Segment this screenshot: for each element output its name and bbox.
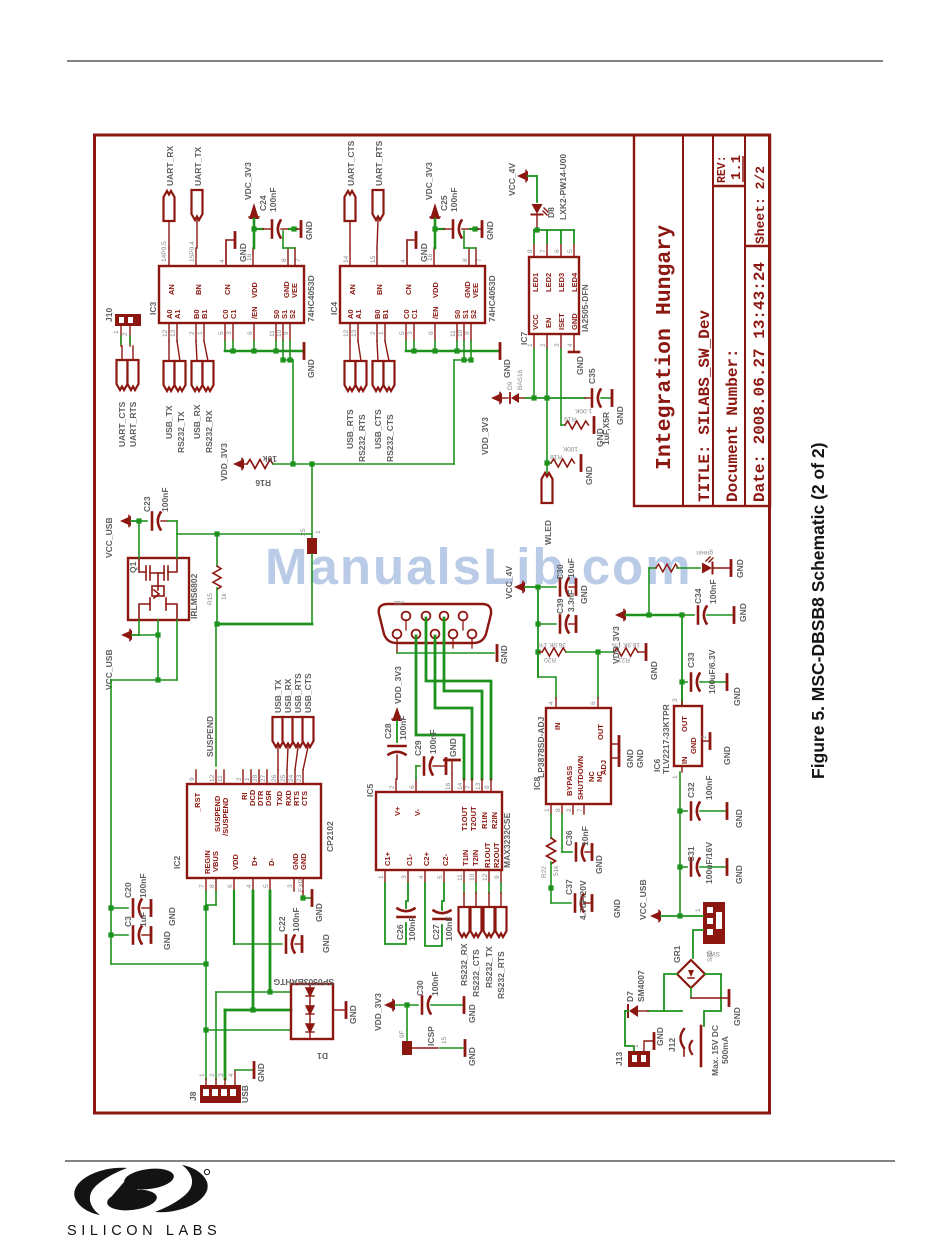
svg-text:13: 13 xyxy=(351,329,358,337)
svg-text:2: 2 xyxy=(236,777,243,781)
IC3 pins bottom xyxy=(169,323,290,341)
svg-text:28: 28 xyxy=(252,774,259,782)
connector flag UART_RTS (IC4) xyxy=(373,140,385,248)
wire ADJ net xyxy=(597,652,599,708)
svg-text:1: 1 xyxy=(544,808,551,812)
wire USB D- net xyxy=(216,891,291,1079)
svg-text:GND: GND xyxy=(594,855,604,874)
svg-text:2: 2 xyxy=(370,331,377,335)
IC4 74HC4053D xyxy=(329,266,497,323)
IC5 bottom pins xyxy=(385,870,501,883)
svg-text:6: 6 xyxy=(247,331,254,335)
svg-text:4: 4 xyxy=(400,259,407,263)
connector flags USB_RTS RS232_RTS xyxy=(345,341,368,462)
svg-text:2: 2 xyxy=(540,343,547,347)
svg-text:RS232_TX: RS232_TX xyxy=(176,411,186,453)
svg-text:LXK2-PW14-U00: LXK2-PW14-U00 xyxy=(558,154,568,220)
svg-text:Date: 2008.06.27 13:43:24: Date: 2008.06.27 13:43:24 xyxy=(751,262,769,502)
svg-text:GND: GND xyxy=(314,903,324,922)
svg-text:100nF: 100nF xyxy=(268,187,278,212)
svg-text:74HC4053D: 74HC4053D xyxy=(306,275,316,322)
svg-text:9: 9 xyxy=(283,331,290,335)
svg-text:SP0503BAHTG: SP0503BAHTG xyxy=(273,977,334,987)
svg-text:RS232_RTS: RS232_RTS xyxy=(357,414,367,462)
wire VDD to IC4 pin16 xyxy=(432,219,437,248)
svg-text:11: 11 xyxy=(217,775,224,782)
svg-text:OUT: OUT xyxy=(680,716,689,732)
svg-text:4.7uF/20V: 4.7uF/20V xyxy=(578,880,588,920)
svg-text:4: 4 xyxy=(567,343,574,347)
title block xyxy=(634,135,770,506)
IC2 CP2102 xyxy=(172,784,335,878)
svg-text:R2IN: R2IN xyxy=(490,812,499,829)
wire VCC rail xyxy=(526,397,585,399)
svg-text:7: 7 xyxy=(540,249,547,253)
svg-text:GND: GND xyxy=(304,221,314,240)
svg-text:D9: D9 xyxy=(507,381,514,390)
svg-text:RS232_RX: RS232_RX xyxy=(204,410,214,453)
wire SW1 to bridge xyxy=(693,930,703,958)
wire DB9 shield ground xyxy=(397,638,509,664)
svg-text:GND: GND xyxy=(238,243,248,262)
svg-text:25: 25 xyxy=(280,774,287,782)
svg-text:100nF: 100nF xyxy=(430,971,440,996)
svg-text:UART_TX: UART_TX xyxy=(193,146,203,186)
ground J13 pin2 xyxy=(644,1027,665,1051)
svg-text:100nF: 100nF xyxy=(708,579,718,604)
svg-text:1k: 1k xyxy=(221,592,228,600)
svg-text:2: 2 xyxy=(566,808,573,812)
switch SW1 xyxy=(680,902,725,957)
svg-text:BAS16: BAS16 xyxy=(517,369,524,390)
IC4 pin names xyxy=(346,281,480,319)
svg-text:GND: GND xyxy=(467,1047,477,1066)
svg-text:1.00K: 1.00K xyxy=(574,407,592,414)
svg-text:1uF: 1uF xyxy=(138,912,148,927)
svg-text:6: 6 xyxy=(428,331,435,335)
svg-text:VDC_3V3: VDC_3V3 xyxy=(424,162,434,200)
svg-text:GND: GND xyxy=(299,853,308,870)
svg-text:C1: C1 xyxy=(410,309,419,319)
svg-text:CN: CN xyxy=(223,284,232,295)
power VDD_3V3 rail right column xyxy=(611,610,685,665)
svg-text:36.5K 1%: 36.5K 1% xyxy=(538,641,566,648)
svg-text:C23: C23 xyxy=(142,496,152,512)
svg-text:C36: C36 xyxy=(564,830,574,846)
svg-text:2: 2 xyxy=(701,735,708,739)
wire select net down from IC3 xyxy=(292,360,294,464)
svg-text:AN: AN xyxy=(348,284,357,295)
connector J8 USB xyxy=(188,1070,250,1103)
connector J13 xyxy=(614,1011,650,1067)
svg-text:GND: GND xyxy=(321,934,331,953)
svg-text:C22: C22 xyxy=(277,916,287,932)
svg-text:USB_CTS: USB_CTS xyxy=(303,673,313,713)
svg-text:27: 27 xyxy=(260,774,267,782)
svg-text:1: 1 xyxy=(633,1044,640,1048)
svg-text:SM4007: SM4007 xyxy=(636,970,646,1002)
capacitor C33 100uF xyxy=(682,649,742,706)
svg-text:3: 3 xyxy=(226,331,233,335)
capacitor C25 xyxy=(435,187,478,237)
svg-text:T2OUT: T2OUT xyxy=(469,806,478,831)
svg-text:IC3: IC3 xyxy=(148,302,158,316)
power VCC_4V at C30 xyxy=(504,566,538,599)
svg-text:AN: AN xyxy=(167,284,176,295)
svg-text:USB_CTS: USB_CTS xyxy=(373,409,383,449)
svg-text:VDC_3V3: VDC_3V3 xyxy=(243,162,253,200)
svg-text:ICSP: ICSP xyxy=(426,1026,436,1046)
connector J11 DB9 xyxy=(379,599,491,648)
svg-text:13: 13 xyxy=(170,329,177,337)
IC2 top pins xyxy=(196,770,303,784)
svg-text:C27: C27 xyxy=(431,924,441,940)
svg-text:RS232_TX: RS232_TX xyxy=(484,946,494,988)
svg-text:B1: B1 xyxy=(200,309,209,319)
svg-text:3.3nF: 3.3nF xyxy=(566,590,576,612)
capacitor C39 3.3nF xyxy=(538,590,576,633)
svg-text:GND: GND xyxy=(348,1005,358,1024)
svg-text:GND: GND xyxy=(162,931,172,950)
svg-text:10uF: 10uF xyxy=(566,558,576,578)
svg-text:14P0.5: 14P0.5 xyxy=(161,241,168,262)
svg-text:V+: V+ xyxy=(393,806,402,816)
svg-text:C1+: C1+ xyxy=(383,851,392,866)
svg-text:R16: R16 xyxy=(255,478,271,488)
svg-text:S2: S2 xyxy=(469,310,478,319)
svg-text:25: 25 xyxy=(300,528,307,536)
capacitor C31 100uF xyxy=(680,842,744,884)
svg-text:USB_TX: USB_TX xyxy=(164,405,174,439)
watermark ManualsLib.com xyxy=(265,538,693,595)
power VDD_3V3 at C30b xyxy=(373,993,418,1031)
svg-text:A1: A1 xyxy=(354,309,363,319)
svg-text:7: 7 xyxy=(465,785,472,789)
wire IN net to regulator xyxy=(538,652,556,708)
svg-text:4: 4 xyxy=(219,259,226,263)
svg-text:J13: J13 xyxy=(614,1052,624,1066)
svg-text:23: 23 xyxy=(296,774,303,782)
capacitor C29 xyxy=(413,729,446,779)
svg-text:10: 10 xyxy=(469,873,476,881)
svg-text:SHUTDOWN: SHUTDOWN xyxy=(576,756,585,800)
capacitor C27 xyxy=(425,883,454,946)
svg-text:TXD: TXD xyxy=(275,790,284,806)
connector flags USB_TX RS232_TX xyxy=(164,341,187,453)
svg-text:GND: GND xyxy=(735,559,745,578)
svg-text:GND: GND xyxy=(502,359,512,378)
svg-text:LP3878SD-ADJ: LP3878SD-ADJ xyxy=(536,716,546,778)
svg-text:VCC_4V: VCC_4V xyxy=(504,566,514,599)
wire IC7 pin1 to VCC rail xyxy=(531,349,536,401)
capacitor C36 10nF xyxy=(562,814,604,874)
svg-text:GND: GND xyxy=(595,428,605,447)
wire DB9 pin to R2IN xyxy=(426,618,491,779)
svg-text:VEE: VEE xyxy=(471,283,480,298)
svg-text:LED2: LED2 xyxy=(544,273,553,292)
svg-text:12: 12 xyxy=(162,329,169,337)
svg-text:R15: R15 xyxy=(207,593,214,605)
svg-text:15P0.4: 15P0.4 xyxy=(189,241,196,262)
wire USB D+ net xyxy=(225,891,291,1079)
svg-text:DSR: DSR xyxy=(264,790,273,806)
svg-text:VEE: VEE xyxy=(290,283,299,298)
svg-text:74HC4053D: 74HC4053D xyxy=(487,275,497,322)
svg-text:RS232_RX: RS232_RX xyxy=(459,943,469,986)
svg-text:C32: C32 xyxy=(686,782,696,798)
svg-text:100nF: 100nF xyxy=(449,187,459,212)
resistor R22 51k xyxy=(541,814,560,891)
svg-text:V-: V- xyxy=(413,808,422,816)
ground right of C25 xyxy=(478,221,495,240)
svg-text:IC7: IC7 xyxy=(519,332,529,346)
IC7 pins xyxy=(534,243,574,352)
svg-text:5: 5 xyxy=(567,249,574,253)
ground EXP pad xyxy=(300,891,324,923)
caption Figure 5 xyxy=(808,443,828,779)
svg-text:BYPASS: BYPASS xyxy=(565,766,574,796)
svg-text:GND: GND xyxy=(625,749,635,768)
svg-text:C25: C25 xyxy=(439,195,449,211)
resistor R25 xyxy=(300,464,322,624)
svg-text:S80: S80 xyxy=(707,950,714,962)
svg-text:GND: GND xyxy=(635,749,645,768)
svg-text:CP2102: CP2102 xyxy=(325,821,335,852)
resistor R19 xyxy=(561,407,605,447)
IC4 pins top xyxy=(350,240,476,266)
svg-text:C30: C30 xyxy=(415,980,425,996)
wire SUSPEND net xyxy=(205,621,312,766)
resistor R18 xyxy=(547,445,594,485)
svg-text:D7: D7 xyxy=(625,991,635,1002)
connector J10 xyxy=(104,308,141,346)
svg-text:10k: 10k xyxy=(263,454,277,464)
ground bridge xyxy=(691,988,742,1026)
capacitor C30 100nF xyxy=(415,971,477,1023)
svg-text:IC5: IC5 xyxy=(365,784,375,798)
svg-text:100nF: 100nF xyxy=(407,916,417,941)
svg-text:S2: S2 xyxy=(288,310,297,319)
IC3 pin names xyxy=(165,281,299,319)
svg-text:7: 7 xyxy=(476,258,483,262)
svg-text:SILICON LABS: SILICON LABS xyxy=(67,1223,221,1239)
svg-text:VDD: VDD xyxy=(431,282,440,298)
svg-text:/EN: /EN xyxy=(431,306,440,319)
svg-text:14: 14 xyxy=(457,782,464,790)
svg-text:100uF/16V: 100uF/16V xyxy=(704,842,714,884)
resistor R21 xyxy=(612,641,659,680)
svg-text:GND: GND xyxy=(734,865,744,884)
svg-text:GND: GND xyxy=(615,406,625,425)
svg-text:12: 12 xyxy=(343,329,350,337)
svg-text:14: 14 xyxy=(343,255,350,263)
svg-text:MAX3232CSE: MAX3232CSE xyxy=(502,812,512,868)
svg-text:IA2505-DFN: IA2505-DFN xyxy=(580,284,590,332)
svg-text:RS232_CTS: RS232_CTS xyxy=(471,949,481,997)
svg-text:UART_RX: UART_RX xyxy=(165,146,175,186)
ground at IC4 pin4 xyxy=(407,233,429,267)
svg-text:13: 13 xyxy=(475,782,482,790)
svg-text:USB_TX: USB_TX xyxy=(273,679,283,713)
svg-text:VBUS: VBUS xyxy=(211,851,220,872)
IC3 ground bus xyxy=(225,341,316,378)
svg-text:BN: BN xyxy=(375,284,384,295)
svg-text:C20: C20 xyxy=(123,882,133,898)
schematic frame xyxy=(95,135,770,1113)
svg-text:CTS: CTS xyxy=(300,791,309,806)
svg-text:REV:: REV: xyxy=(716,155,729,183)
resistor R16 10k xyxy=(247,454,277,488)
svg-text:3: 3 xyxy=(407,331,414,335)
resistor R24 xyxy=(656,564,700,572)
svg-text:Sheet: 2/2: Sheet: 2/2 xyxy=(753,166,768,244)
ground J8 shield xyxy=(235,1063,266,1083)
svg-text:J11: J11 xyxy=(394,599,404,606)
capacitor C26 xyxy=(385,883,417,944)
capacitor C34 100nF xyxy=(682,579,748,623)
svg-text:C35: C35 xyxy=(587,368,597,384)
LED D10 green xyxy=(696,549,745,578)
IC2 bottom pins xyxy=(206,878,303,891)
svg-text:GR1: GR1 xyxy=(672,945,682,963)
IC3 pins top xyxy=(169,240,295,266)
svg-text:VCC_USB: VCC_USB xyxy=(104,649,114,690)
wire DB9 pin to R1IN xyxy=(444,618,482,779)
svg-text:GND: GND xyxy=(649,661,659,680)
svg-text:100nF: 100nF xyxy=(398,715,408,740)
capacitor C20 xyxy=(111,873,177,926)
IC7 IA2505-DFN xyxy=(519,257,590,345)
svg-text:100nF: 100nF xyxy=(704,775,714,800)
svg-text:GND: GND xyxy=(689,737,698,754)
svg-text:C1-: C1- xyxy=(405,853,414,866)
svg-text:C1: C1 xyxy=(229,309,238,319)
transistor Q1 IRLMS6802 xyxy=(128,558,199,620)
svg-text:IN: IN xyxy=(680,757,689,765)
svg-text:VDD: VDD xyxy=(250,282,259,298)
svg-text:11: 11 xyxy=(450,330,457,337)
svg-text:SUSPEND: SUSPEND xyxy=(205,716,215,757)
svg-text:USB: USB xyxy=(240,1085,250,1103)
svg-text:12: 12 xyxy=(209,774,216,782)
diode array SP0503BAHTG xyxy=(273,977,334,1061)
bridge rectifier GR1 xyxy=(672,945,714,988)
svg-text:4: 4 xyxy=(418,875,425,879)
svg-text:ManualsLib.com: ManualsLib.com xyxy=(265,538,693,595)
svg-text:4: 4 xyxy=(548,701,555,705)
connector flag UART_CTS (IC4) xyxy=(345,140,357,248)
svg-text:IRLMS6802: IRLMS6802 xyxy=(189,573,199,619)
svg-text:TLV2217-33KTPR: TLV2217-33KTPR xyxy=(661,704,671,774)
svg-text:ADJ: ADJ xyxy=(599,760,608,775)
IC4 ground bus xyxy=(406,341,512,378)
svg-text:USB_RTS: USB_RTS xyxy=(345,409,355,449)
svg-text:8: 8 xyxy=(555,808,562,812)
svg-text:VDD_3V3: VDD_3V3 xyxy=(611,626,621,664)
svg-text:VCC_4V: VCC_4V xyxy=(507,163,517,196)
wire VBUS to J8 xyxy=(203,964,291,1079)
svg-text:1: 1 xyxy=(199,1073,206,1077)
svg-text:C26: C26 xyxy=(395,924,405,940)
svg-text:IN: IN xyxy=(553,723,562,731)
svg-text:2: 2 xyxy=(189,331,196,335)
svg-text:UART_RTS: UART_RTS xyxy=(374,140,384,186)
svg-text:R19: R19 xyxy=(564,415,576,422)
diode D9 BAS16 xyxy=(502,369,526,403)
svg-text:C24: C24 xyxy=(258,195,268,211)
svg-text:J8: J8 xyxy=(188,1091,198,1101)
wire bridge loop right xyxy=(704,974,721,1026)
svg-text:C29: C29 xyxy=(413,740,423,756)
wire IC7 pin3 ISET xyxy=(560,349,562,425)
power VCC_USB arrow right xyxy=(638,879,680,921)
IC4 pins bottom xyxy=(350,323,471,341)
wire IC7 pin2 EN xyxy=(544,349,549,466)
IC3 74HC4053D xyxy=(148,266,316,323)
capacitor C3 xyxy=(111,912,172,950)
svg-text:GND: GND xyxy=(612,899,622,918)
svg-text:USB_RTS: USB_RTS xyxy=(293,673,303,713)
svg-text:GND: GND xyxy=(575,356,585,375)
svg-text:15: 15 xyxy=(370,255,377,263)
svg-text:100nF: 100nF xyxy=(160,487,170,512)
svg-text:2: 2 xyxy=(122,332,129,336)
svg-text:BN: BN xyxy=(194,284,203,295)
power VCC_4V xyxy=(507,163,537,202)
svg-text:UART_CTS: UART_CTS xyxy=(117,401,127,447)
svg-text:10nF: 10nF xyxy=(580,826,590,846)
svg-text:J12: J12 xyxy=(667,1038,677,1052)
svg-text:CN: CN xyxy=(404,284,413,295)
connector flags RS232 xyxy=(459,883,507,999)
svg-text:IC2: IC2 xyxy=(172,856,182,870)
LED D8 LXK2-PW14-U00 xyxy=(532,154,569,233)
power jack J12 xyxy=(667,1026,701,1066)
svg-text:R2OUT: R2OUT xyxy=(492,842,501,868)
svg-text:EN: EN xyxy=(544,318,553,328)
power VDC_3V3 at IC4 pin16 xyxy=(424,162,440,219)
wire VCC_4V column xyxy=(535,584,540,677)
wire VDD to pin16 xyxy=(251,219,256,248)
svg-text:WLED: WLED xyxy=(543,520,553,545)
svg-text:11: 11 xyxy=(269,330,276,337)
svg-text:R1OUT: R1OUT xyxy=(483,842,492,868)
IC5 MAX3232CSE xyxy=(365,784,512,871)
wire select net horizontal xyxy=(273,461,454,466)
svg-text:8: 8 xyxy=(484,785,491,789)
svg-text:IC4: IC4 xyxy=(329,302,339,316)
connector flag UART_RX xyxy=(161,146,175,262)
svg-text:1: 1 xyxy=(672,775,679,779)
svg-text:R1IN: R1IN xyxy=(480,812,489,829)
regulator IC6 TLV2217-33KTPR xyxy=(652,698,708,779)
svg-text:GND: GND xyxy=(448,738,458,757)
svg-text:51k: 51k xyxy=(553,865,560,876)
svg-text:GND: GND xyxy=(655,1027,665,1046)
svg-text:/EN: /EN xyxy=(250,306,259,319)
svg-text:100nF: 100nF xyxy=(138,873,148,898)
svg-text:C2+: C2+ xyxy=(422,851,431,866)
svg-text:8: 8 xyxy=(527,249,534,253)
connector flag UART_TX xyxy=(189,146,203,262)
svg-text:6: 6 xyxy=(227,884,234,888)
wire Q1 gate net xyxy=(139,521,312,558)
svg-text:USB_RX: USB_RX xyxy=(283,678,293,713)
svg-text:Max. 15V DC: Max. 15V DC xyxy=(710,1025,720,1076)
svg-text:GND: GND xyxy=(570,313,579,330)
power VCC_USB top xyxy=(104,516,142,559)
svg-text:5: 5 xyxy=(437,875,444,879)
